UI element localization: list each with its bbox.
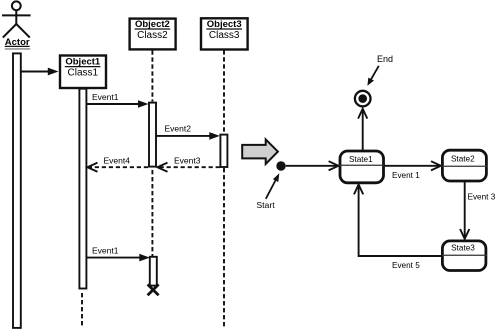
- svg-text:Object2: Object2: [135, 19, 170, 30]
- svg-text:State1: State1: [349, 155, 373, 164]
- svg-text:State3: State3: [451, 244, 475, 253]
- object2 activation bar 1: [149, 103, 156, 167]
- create message arrow to object1: [21, 68, 59, 76]
- event4 return arrow: [87, 156, 148, 172]
- event3 return arrow: [157, 156, 219, 172]
- object2 lifeline upper: [151, 50, 153, 101]
- svg-text:Event 1: Event 1: [392, 171, 420, 180]
- svg-text:End: End: [377, 54, 393, 64]
- svg-text:State2: State2: [451, 155, 475, 164]
- object2 box: [130, 19, 176, 50]
- object1 lifeline: [81, 293, 83, 328]
- big gray transition arrow: [242, 139, 278, 164]
- object3 lifeline lower: [223, 168, 225, 328]
- event2 message arrow: [156, 124, 219, 140]
- object3 activation bar: [220, 135, 227, 167]
- state1 box: [339, 151, 384, 183]
- event1 second message arrow: [87, 245, 150, 261]
- object3 lifeline upper: [223, 50, 225, 134]
- start node: [276, 161, 285, 170]
- svg-text:Event4: Event4: [104, 156, 131, 166]
- actor gray rule: [5, 48, 30, 50]
- object1 box: [60, 56, 106, 89]
- svg-text:Class3: Class3: [209, 30, 240, 41]
- object2 activation bar 2: [150, 257, 157, 286]
- event1 message arrow: [87, 92, 149, 108]
- start transition to state1: [286, 161, 339, 170]
- event 3 transition state2 to state3: [460, 182, 469, 239]
- end pointer arrow: [367, 66, 378, 86]
- svg-text:Class1: Class1: [68, 68, 99, 79]
- start pointer arrow: [266, 173, 280, 199]
- svg-text:Event1: Event1: [92, 245, 119, 255]
- svg-text:Event 5: Event 5: [392, 261, 420, 270]
- actor figure: [2, 1, 31, 37]
- end node: [355, 91, 371, 107]
- event 1 transition state1 to state2: [384, 161, 441, 170]
- svg-text:Object3: Object3: [207, 19, 242, 30]
- object3 label: [206, 19, 242, 41]
- event 5 transition state3 to state1: [354, 185, 441, 257]
- object1 label: [65, 57, 101, 79]
- svg-text:Class2: Class2: [137, 30, 168, 41]
- object3 box: [201, 18, 248, 49]
- svg-text:Start: Start: [256, 200, 275, 210]
- destroy X: [148, 284, 159, 295]
- object2 lifeline middle: [151, 170, 153, 256]
- svg-text:Event 3: Event 3: [468, 192, 496, 201]
- state2 box: [441, 150, 487, 181]
- actor label: [5, 37, 30, 48]
- state1 to end transition: [358, 109, 367, 150]
- svg-text:Event3: Event3: [174, 156, 201, 166]
- svg-text:Event2: Event2: [165, 124, 192, 134]
- actor activation bar: [13, 53, 21, 328]
- object2 label: [135, 19, 171, 41]
- object1 activation bar: [79, 89, 86, 289]
- svg-text:Object1: Object1: [65, 57, 101, 68]
- svg-text:Event1: Event1: [92, 92, 119, 102]
- state3 box: [441, 241, 487, 271]
